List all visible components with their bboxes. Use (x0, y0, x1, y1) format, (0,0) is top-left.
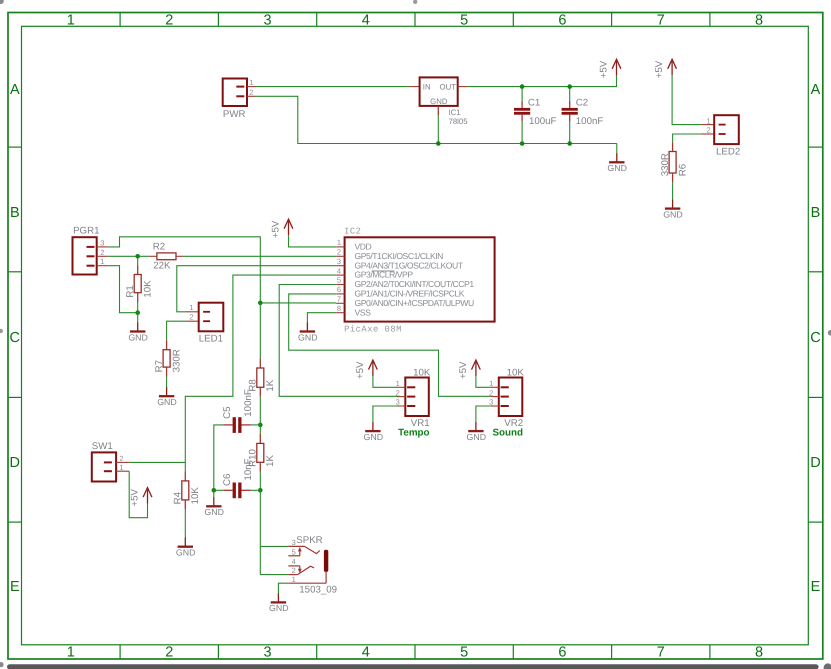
svg-text:2: 2 (100, 248, 104, 257)
svg-text:A: A (10, 82, 20, 98)
capacitor C6 10nF (222, 458, 260, 498)
pin stub VR1-1 (397, 386, 405, 388)
svg-text:3: 3 (292, 538, 296, 547)
svg-text:4: 4 (362, 645, 370, 661)
resistor R1 10K (125, 275, 154, 298)
svg-text:GND: GND (607, 163, 627, 173)
pin stub R7 bottom (166, 367, 168, 376)
wire +5V rail (468, 75, 617, 86)
svg-text:+5V: +5V (271, 220, 282, 238)
svg-text:2: 2 (337, 248, 341, 257)
wire SW1-2 to R4 node (130, 461, 186, 463)
svg-text:E: E (10, 579, 20, 595)
capacitor C5 100nF (222, 389, 260, 433)
svg-text:100nF: 100nF (243, 389, 254, 417)
frame column ticks (120, 13, 710, 660)
wire +5V to VR2 pin1 (476, 376, 491, 387)
svg-text:GND: GND (663, 209, 683, 219)
wire +5V to IC2 pin1 (289, 235, 337, 247)
svg-text:5: 5 (460, 645, 468, 661)
svg-text:Sound: Sound (493, 427, 523, 438)
svg-text:4: 4 (292, 557, 296, 566)
svg-text:R4: R4 (173, 491, 184, 504)
wire audio to SPKR pin3 (260, 490, 288, 546)
ground GND (R6) (663, 199, 683, 219)
supply symbol +5V (IC2 VDD) (271, 219, 293, 238)
svg-text:GP0/AN0/CIN+/ICSPDAT/ULPWU: GP0/AN0/CIN+/ICSPDAT/ULPWU (355, 298, 474, 308)
ground GND (C5/C6) (204, 497, 224, 517)
pin stub R6 bottom (672, 173, 674, 182)
wire VR2 pin3 to ground (476, 406, 491, 422)
svg-text:8: 8 (755, 645, 763, 661)
svg-text:C5: C5 (222, 407, 233, 419)
svg-text:+5V: +5V (599, 60, 610, 78)
svg-text:2: 2 (165, 13, 173, 29)
svg-text:1K: 1K (265, 454, 276, 466)
junction C5 node (258, 423, 263, 428)
svg-text:+5V: +5V (654, 60, 665, 78)
pin stub LED2-2 (701, 133, 714, 135)
svg-text:C1: C1 (528, 97, 540, 108)
svg-text:PicAxe 08M: PicAxe 08M (344, 325, 402, 335)
svg-text:6: 6 (558, 645, 566, 661)
svg-text:B: B (10, 205, 20, 221)
wire R7 to ground (166, 377, 168, 388)
wire +5V to VR1 pin1 (373, 376, 397, 387)
svg-text:GND: GND (176, 548, 196, 558)
svg-text:IC2: IC2 (344, 226, 361, 236)
svg-text:3: 3 (489, 398, 493, 407)
wire IC2 pin8 to ground (307, 313, 336, 323)
svg-text:IC1: IC1 (449, 108, 461, 117)
wire ground rail drop (616, 144, 618, 154)
svg-text:1: 1 (67, 645, 75, 661)
supply symbol +5V (LED2) (654, 59, 676, 78)
connector SW1 (92, 441, 124, 481)
ground GND (IC2 VSS) (298, 322, 318, 342)
pin stub SW1-2 (116, 461, 130, 463)
svg-text:1: 1 (100, 257, 104, 266)
pin stub IC1 OUT (458, 86, 468, 88)
resistor R7 330R (154, 349, 183, 372)
junction C2 top (567, 84, 572, 89)
resistor R10 1K (248, 443, 277, 466)
svg-text:2: 2 (396, 388, 400, 397)
pin stub R10 top (259, 434, 261, 443)
svg-text:3: 3 (396, 398, 400, 407)
ground GND (R7) (157, 387, 177, 407)
svg-text:R7: R7 (154, 360, 165, 372)
wire PGR1-1 to ground node (108, 266, 138, 313)
svg-text:22K: 22K (153, 260, 171, 271)
wire pin7 node down to R8 (259, 303, 261, 359)
wire R4 to ground (184, 509, 186, 537)
svg-text:100nF: 100nF (576, 116, 604, 127)
wire R8 to C5 node (259, 397, 261, 425)
svg-text:1: 1 (249, 78, 253, 87)
svg-text:3: 3 (264, 645, 272, 661)
svg-text:6: 6 (337, 285, 341, 294)
resistor R8 1K (248, 368, 277, 392)
resistor R2 22K (153, 241, 176, 271)
junction C6 left node (212, 488, 217, 493)
svg-text:B: B (811, 205, 821, 221)
svg-text:10K: 10K (507, 367, 525, 378)
wire IC1 GND down to ground rail (437, 115, 439, 144)
svg-text:10K: 10K (143, 280, 154, 298)
svg-text:GND: GND (157, 397, 177, 407)
svg-text:1503_09: 1503_09 (299, 584, 337, 595)
supply symbol +5V (VR1) (355, 360, 377, 379)
svg-text:8: 8 (337, 304, 341, 313)
svg-text:8: 8 (755, 13, 763, 29)
pin stub VR2-3 (491, 405, 499, 407)
svg-text:1: 1 (189, 303, 193, 312)
svg-text:GND: GND (204, 507, 224, 517)
svg-text:100uF: 100uF (529, 116, 557, 127)
junction PGR1-2 / R1 (135, 254, 140, 259)
wire R2 to IC2 pin2 (184, 255, 336, 257)
wire +5V to LED2 pin1 (672, 75, 701, 124)
svg-text:2: 2 (165, 645, 173, 661)
svg-text:VSS: VSS (355, 307, 372, 317)
ground GND (SPKR) (269, 593, 289, 613)
svg-text:IN: IN (423, 83, 431, 92)
svg-text:C2: C2 (576, 97, 588, 108)
svg-text:SW1: SW1 (92, 441, 113, 452)
junction ground rail / IC1 (436, 141, 441, 146)
pin stub PGR1-1 (97, 265, 109, 267)
pin stub IC1 GND (437, 106, 439, 115)
ground GND (VR2) (467, 422, 487, 442)
svg-text:1: 1 (67, 13, 75, 29)
svg-text:C: C (10, 330, 20, 346)
svg-text:1: 1 (707, 116, 711, 125)
resistor R4 10K (173, 481, 202, 505)
pin stub R4 top (184, 472, 186, 481)
svg-text:78l05: 78l05 (449, 117, 469, 126)
svg-text:3: 3 (337, 257, 341, 266)
junction R1 / PGR1-1 ground node (135, 310, 140, 315)
wire SPKR pin1 to ground (278, 583, 288, 593)
wire IC2 pin6 to VR2 pin2 (289, 294, 491, 396)
svg-text:2: 2 (292, 566, 296, 575)
svg-text:A: A (811, 82, 821, 98)
svg-text:D: D (810, 455, 820, 471)
wire LED2 pin2 to R6 (673, 134, 701, 142)
wire C6 left junction (214, 489, 223, 491)
wire PGR1-2 to R2 (108, 255, 149, 257)
wire PWR-1 to IC1 IN (256, 86, 409, 88)
wire C5 left to C6 left (214, 425, 223, 490)
wire IC2 pin4 to SW1 net (185, 275, 336, 462)
svg-text:GND: GND (430, 97, 448, 106)
pin stub LED1-1 (185, 311, 199, 313)
svg-text:1: 1 (119, 463, 123, 472)
svg-text:GND: GND (269, 603, 289, 613)
svg-text:SPKR: SPKR (296, 535, 322, 546)
svg-text:PWR: PWR (223, 109, 246, 120)
svg-text:330R: 330R (660, 153, 671, 176)
wire IC2 pin3 to LED1 pin1 (177, 266, 336, 312)
scrollbar dot right-middle (828, 330, 831, 336)
pin stub R1 bottom (137, 293, 139, 302)
junction C2 bottom (567, 141, 572, 146)
wire VR1 pin3 to ground (373, 406, 397, 422)
svg-text:2: 2 (707, 126, 711, 135)
svg-text:330R: 330R (171, 349, 182, 372)
pin stub LED1-2 (185, 320, 199, 322)
pin stub PWR-1 (247, 86, 256, 88)
svg-text:2: 2 (119, 454, 123, 463)
wire audio to SPKR pin2 (260, 546, 288, 574)
supply symbol +5V (VR2) (458, 360, 480, 379)
junction IC2 pin7 node (258, 301, 263, 306)
svg-text:GND: GND (364, 432, 384, 442)
svg-text:5: 5 (460, 13, 468, 29)
svg-text:E: E (811, 579, 821, 595)
pin stub PGR1-2 (97, 255, 109, 257)
svg-text:+5V: +5V (355, 361, 366, 379)
pin stub R2 right (176, 255, 184, 257)
svg-text:1: 1 (292, 575, 296, 584)
svg-text:7: 7 (657, 13, 665, 29)
ground GND (R4) (176, 538, 196, 558)
svg-text:5: 5 (292, 548, 296, 557)
svg-text:LED2: LED2 (716, 147, 740, 158)
svg-text:7: 7 (337, 295, 341, 304)
svg-text:D: D (10, 455, 20, 471)
svg-text:+5V: +5V (458, 361, 469, 379)
svg-text:GND: GND (128, 332, 148, 342)
potentiometer VR1 10K Tempo (396, 367, 431, 438)
voltage regulator IC1 78l05 (420, 77, 469, 125)
svg-text:6: 6 (558, 13, 566, 29)
pin stub VR2-1 (491, 386, 499, 388)
wire ground node drop (137, 313, 139, 323)
svg-text:2: 2 (189, 313, 193, 322)
potentiometer VR2 10K Sound (489, 367, 524, 438)
svg-text:Tempo: Tempo (398, 427, 429, 438)
connector LED1 (189, 303, 223, 345)
svg-text:7: 7 (657, 645, 665, 661)
scrollbar dot top-left (0, 0, 4, 4)
svg-text:GND: GND (467, 432, 487, 442)
svg-text:10K: 10K (190, 487, 201, 505)
svg-text:3: 3 (264, 13, 272, 29)
wire PWR-2 to ground rail (256, 96, 617, 143)
resistor R6 330R (660, 152, 689, 177)
wire PGR1-3 to node ICSPDAT (108, 237, 260, 303)
svg-text:R1: R1 (125, 285, 136, 297)
pin stub VR2-2 (491, 396, 499, 398)
wire IC2 pin5 to VR1 pin2 (279, 285, 397, 397)
capacitor C2 100nF (562, 87, 604, 144)
svg-text:4: 4 (362, 13, 370, 29)
ground GND (PGR1/R1) (128, 322, 148, 342)
pin stub PGR1-3 (97, 246, 109, 248)
svg-text:5: 5 (337, 276, 341, 285)
wire R4 node down (184, 462, 186, 471)
scrollbar dot top-middle (413, 0, 417, 4)
svg-text:4: 4 (337, 266, 341, 275)
svg-text:1K: 1K (265, 379, 276, 391)
frame row letters (10, 82, 821, 595)
connector PWR (223, 78, 254, 120)
pin stub LED2-1 (701, 124, 714, 126)
scrollbar dot bottom-left (0, 662, 4, 667)
svg-text:10nF: 10nF (243, 458, 254, 480)
svg-text:3: 3 (100, 238, 104, 247)
speaker jack SPKR 1503_09 (288, 535, 337, 595)
pin stub IC1 IN (410, 86, 420, 88)
ground GND (VR1) (364, 422, 384, 442)
pin stub SW1-1 (116, 470, 129, 472)
pin stub R8 top (259, 359, 261, 368)
pin stub R8 bottom (259, 387, 261, 396)
pin stub R6 top (672, 142, 674, 151)
pin stub R4 bottom (184, 500, 186, 509)
wire IC2 pin7 to audio chain (260, 302, 336, 304)
svg-text:1: 1 (489, 379, 493, 388)
wire R10 to C6 node (259, 472, 261, 491)
supply symbol +5V (SW1) (130, 488, 152, 507)
svg-text:1: 1 (337, 238, 341, 247)
svg-text:10K: 10K (413, 367, 431, 378)
pin stub R10 bottom (259, 462, 261, 471)
junction C1 bottom (520, 141, 525, 146)
scrollbar horizontal (7, 664, 819, 669)
junction C6 right node (258, 488, 263, 493)
pin stub R2 left (149, 255, 157, 257)
wire R1 top (137, 256, 139, 265)
connector PGR1 (73, 225, 105, 274)
pin stub R1 top (137, 266, 139, 275)
microcontroller IC2 PicAxe 08M (336, 226, 494, 334)
connector LED2 (707, 115, 741, 157)
wire C6 left node drop (213, 490, 215, 497)
svg-text:1: 1 (396, 379, 400, 388)
capacitor C1 100uF (514, 87, 557, 144)
ground GND (top rail) (607, 153, 627, 173)
pin stub VR1-2 (397, 396, 405, 398)
wire C5 node down to R10 (259, 425, 261, 434)
wire LED1 pin2 to R7 (167, 321, 186, 340)
wire R6 to ground (672, 182, 674, 199)
frame row ticks (8, 147, 823, 522)
svg-text:R2: R2 (153, 241, 165, 252)
svg-text:R6: R6 (677, 164, 688, 176)
junction C1 top (520, 84, 525, 89)
svg-text:2: 2 (249, 88, 253, 97)
svg-text:LED1: LED1 (199, 334, 223, 345)
svg-text:C6: C6 (222, 474, 233, 486)
svg-text:2: 2 (489, 388, 493, 397)
supply symbol +5V (top rail) (599, 59, 621, 78)
scrollbar dot bottom-right (824, 663, 831, 669)
svg-text:C: C (810, 330, 820, 346)
wire SW1-1 to +5V (129, 471, 147, 518)
svg-text:OUT: OUT (440, 83, 457, 92)
svg-text:PGR1: PGR1 (73, 225, 99, 236)
svg-text:+5V: +5V (130, 489, 141, 507)
wire R1 bottom to ground node (137, 302, 139, 313)
scrollbar dot left-middle (0, 329, 3, 333)
pin stub VR1-3 (397, 405, 405, 407)
svg-text:GND: GND (298, 332, 318, 342)
pin stub R7 top (166, 340, 168, 349)
pin stub PWR-2 (247, 95, 256, 97)
